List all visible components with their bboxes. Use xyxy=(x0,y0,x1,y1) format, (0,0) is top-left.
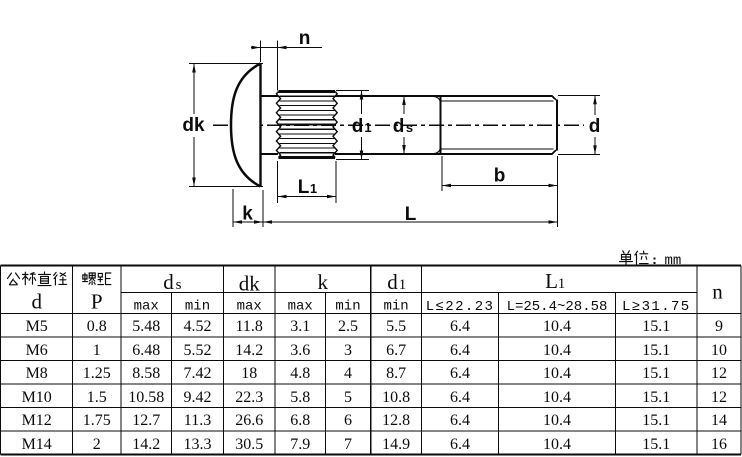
svg-text:min: min xyxy=(383,299,408,315)
svg-text:6.4: 6.4 xyxy=(450,436,470,453)
svg-text:1: 1 xyxy=(364,120,371,135)
svg-text:5.48: 5.48 xyxy=(132,318,160,335)
fullwidth colon xyxy=(654,258,656,260)
svg-text:1.75: 1.75 xyxy=(83,412,111,429)
svg-text:6.4: 6.4 xyxy=(450,318,470,335)
svg-text:5.5: 5.5 xyxy=(386,318,406,335)
table frame xyxy=(1,265,742,267)
svg-text:L: L xyxy=(405,204,417,225)
svg-text:10.4: 10.4 xyxy=(543,436,571,453)
rib right serrated edge xyxy=(333,92,337,158)
svg-text:s: s xyxy=(176,277,182,293)
svg-text:10.4: 10.4 xyxy=(543,389,571,406)
cjk dan xyxy=(620,251,633,265)
svg-text:11.8: 11.8 xyxy=(235,318,262,335)
cjk zhi xyxy=(38,272,51,286)
svg-text:1: 1 xyxy=(558,276,566,292)
svg-text:10.4: 10.4 xyxy=(543,318,571,335)
svg-text:5: 5 xyxy=(344,389,352,406)
svg-text:9.42: 9.42 xyxy=(184,389,212,406)
svg-text:M6: M6 xyxy=(26,342,48,359)
svg-text:max: max xyxy=(134,299,159,315)
svg-text:min: min xyxy=(185,299,210,315)
svg-text:max: max xyxy=(237,299,262,315)
svg-text:d: d xyxy=(387,270,398,294)
svg-text:6.4: 6.4 xyxy=(450,342,470,359)
svg-text:7.9: 7.9 xyxy=(290,436,310,453)
svg-text:k: k xyxy=(242,204,253,225)
dimension k xyxy=(232,189,234,227)
svg-text:L≤22.23: L≤22.23 xyxy=(426,299,495,315)
svg-text:M14: M14 xyxy=(22,436,52,453)
svg-text:P: P xyxy=(91,290,103,314)
bolt head dome xyxy=(231,64,261,187)
ribbed neck section xyxy=(279,90,336,93)
threaded section xyxy=(441,95,553,97)
svg-text:4: 4 xyxy=(344,365,352,382)
svg-text:b: b xyxy=(494,166,506,187)
cjk jing xyxy=(54,272,67,285)
svg-text:M8: M8 xyxy=(26,365,48,382)
dimension L xyxy=(263,221,558,223)
svg-text:6: 6 xyxy=(344,412,352,429)
svg-text:14: 14 xyxy=(711,412,727,429)
svg-text:12: 12 xyxy=(711,365,727,382)
svg-text:6.4: 6.4 xyxy=(450,365,470,382)
svg-text:10.4: 10.4 xyxy=(543,365,571,382)
svg-text:15.1: 15.1 xyxy=(642,412,670,429)
svg-text:8.7: 8.7 xyxy=(386,365,406,382)
svg-text:1.25: 1.25 xyxy=(83,365,111,382)
cjk ju xyxy=(98,273,111,285)
svg-text:1: 1 xyxy=(310,181,317,196)
svg-text:6.7: 6.7 xyxy=(386,342,406,359)
svg-text:M12: M12 xyxy=(22,412,52,429)
cjk gong xyxy=(8,273,20,285)
cjk wei xyxy=(635,251,648,264)
svg-text:mm: mm xyxy=(665,253,682,269)
dimension b xyxy=(441,156,443,191)
svg-text:max: max xyxy=(288,299,313,315)
svg-text:k: k xyxy=(318,270,329,294)
svg-text:6.4: 6.4 xyxy=(450,412,470,429)
table row lines xyxy=(121,292,697,294)
svg-text:2.5: 2.5 xyxy=(338,318,358,335)
svg-text:10.8: 10.8 xyxy=(382,389,410,406)
svg-text:0.8: 0.8 xyxy=(87,318,107,335)
svg-text:10: 10 xyxy=(711,342,727,359)
thread runout xyxy=(434,96,441,101)
rib left serrated edge xyxy=(276,92,280,158)
svg-text:n: n xyxy=(299,28,311,49)
svg-text:5.52: 5.52 xyxy=(184,342,212,359)
svg-text:10.4: 10.4 xyxy=(543,342,571,359)
svg-text:2: 2 xyxy=(93,436,101,453)
svg-text:d: d xyxy=(163,270,174,294)
svg-text:L≥31.75: L≥31.75 xyxy=(622,299,691,315)
svg-text:3.1: 3.1 xyxy=(290,318,310,335)
end chamfer xyxy=(552,96,557,101)
svg-text:15.1: 15.1 xyxy=(642,365,670,382)
svg-text:9: 9 xyxy=(715,318,723,335)
cjk luo xyxy=(83,273,96,285)
svg-text:15.1: 15.1 xyxy=(642,389,670,406)
svg-text:1.5: 1.5 xyxy=(87,389,107,406)
dimension dk xyxy=(189,63,263,65)
svg-text:4.8: 4.8 xyxy=(290,365,310,382)
svg-text:d: d xyxy=(352,116,364,137)
svg-text:12.7: 12.7 xyxy=(132,412,160,429)
svg-text:1: 1 xyxy=(399,277,407,293)
svg-text:14.2: 14.2 xyxy=(235,342,263,359)
svg-text:d: d xyxy=(393,116,405,137)
svg-text:L: L xyxy=(545,269,558,293)
svg-text:10.58: 10.58 xyxy=(128,389,164,406)
svg-text:d: d xyxy=(589,116,601,137)
dimension d1 xyxy=(336,90,369,92)
svg-text:12.8: 12.8 xyxy=(382,412,410,429)
svg-text:7.42: 7.42 xyxy=(184,365,212,382)
svg-text:3: 3 xyxy=(344,342,352,359)
svg-text:6.8: 6.8 xyxy=(290,412,310,429)
svg-text:15.1: 15.1 xyxy=(642,342,670,359)
dimension ds xyxy=(403,96,405,114)
svg-text:6.48: 6.48 xyxy=(132,342,160,359)
svg-text:13.3: 13.3 xyxy=(184,436,212,453)
dimension L1 xyxy=(277,161,279,203)
svg-text:4.52: 4.52 xyxy=(184,318,212,335)
svg-text:12: 12 xyxy=(711,389,727,406)
svg-text:dk: dk xyxy=(239,272,261,296)
svg-text:22.3: 22.3 xyxy=(235,389,263,406)
svg-text:s: s xyxy=(406,120,413,135)
svg-text:1: 1 xyxy=(93,342,101,359)
svg-text:14.2: 14.2 xyxy=(132,436,160,453)
svg-text:26.6: 26.6 xyxy=(235,412,263,429)
svg-text:16: 16 xyxy=(711,436,727,453)
svg-text:14.9: 14.9 xyxy=(382,436,410,453)
svg-text:11.3: 11.3 xyxy=(184,412,211,429)
cjk cheng xyxy=(23,272,36,285)
svg-text:15.1: 15.1 xyxy=(642,318,670,335)
centerline axis xyxy=(213,124,584,126)
svg-text:7: 7 xyxy=(344,436,352,453)
svg-text:6.4: 6.4 xyxy=(450,389,470,406)
svg-text:30.5: 30.5 xyxy=(235,436,263,453)
table column lines xyxy=(71,266,73,455)
dimension d xyxy=(558,94,600,96)
svg-text:n: n xyxy=(712,280,723,304)
svg-text:L=25.4~28.58: L=25.4~28.58 xyxy=(507,299,608,315)
shank xyxy=(335,95,441,97)
svg-text:M10: M10 xyxy=(22,389,52,406)
svg-text:3.6: 3.6 xyxy=(290,342,310,359)
svg-text:18: 18 xyxy=(241,365,257,382)
dimension n xyxy=(260,41,262,63)
svg-text:M5: M5 xyxy=(26,318,48,335)
neck under head xyxy=(261,95,279,97)
svg-text:L: L xyxy=(298,177,310,198)
svg-text:8.58: 8.58 xyxy=(132,365,160,382)
svg-text:5.8: 5.8 xyxy=(290,389,310,406)
svg-text:dk: dk xyxy=(182,115,205,136)
svg-text:10.4: 10.4 xyxy=(543,412,571,429)
svg-text:15.1: 15.1 xyxy=(642,436,670,453)
svg-text:min: min xyxy=(335,299,360,315)
svg-text:d: d xyxy=(31,290,42,314)
